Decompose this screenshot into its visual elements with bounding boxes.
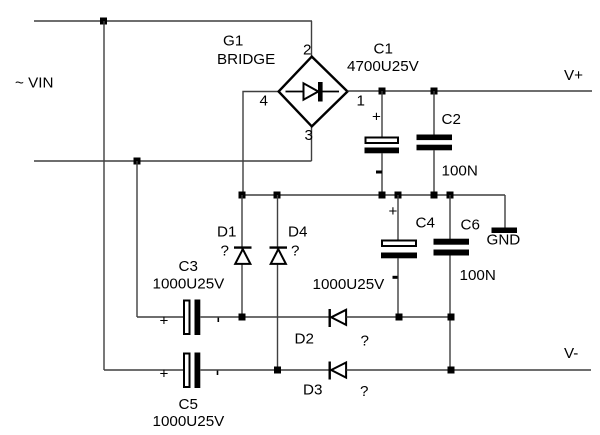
diode D2 cathode bar [329, 309, 331, 327]
svg-text:+: + [372, 109, 381, 126]
wire C3 to D2 [201, 316, 330, 318]
wire D3 to right V- rail [347, 369, 592, 371]
wire bridge pin 3 down to rail [311, 126, 313, 161]
label C5 minus tick [217, 371, 219, 376]
svg-text:V+: V+ [564, 67, 583, 84]
svg-text:D3: D3 [303, 382, 322, 399]
node V- / C6 branch [448, 367, 455, 374]
wire C5/D3 row left [104, 369, 183, 371]
capacitor C4 positive plate (hollow) [382, 241, 416, 247]
wire C6 lower lead down through both rows [449, 256, 451, 371]
capacitor C6 top plate [434, 239, 470, 245]
wire drop to bridge pin 2 [311, 21, 313, 57]
diode D2 triangle [331, 310, 346, 325]
svg-text:2: 2 [303, 42, 311, 59]
capacitor C3 negative plate (solid) [195, 300, 201, 336]
svg-text:GND: GND [487, 231, 521, 248]
wire C2 lower lead [433, 150, 435, 195]
svg-text:BRIDGE: BRIDGE [217, 51, 275, 68]
svg-text:C1: C1 [374, 41, 393, 58]
svg-text:4: 4 [260, 93, 268, 110]
svg-text:3: 3 [305, 127, 313, 144]
wire mid rail [242, 194, 505, 196]
svg-text:1000U25V: 1000U25V [153, 413, 226, 430]
svg-text:100N: 100N [442, 163, 478, 180]
bridge G1 diamond [279, 57, 348, 127]
capacitor C2 bottom plate [417, 145, 453, 151]
capacitor C4 negative plate (solid) [381, 253, 417, 259]
svg-text:?: ? [221, 243, 229, 260]
node D4 bottom [274, 367, 281, 374]
wire second AC rail [34, 160, 312, 162]
diode D3 cathode bar [329, 362, 331, 380]
bridge inner diode line [286, 91, 340, 93]
wire GND drop [504, 195, 506, 229]
node mid rail C1 bottom [379, 192, 386, 199]
wire D2 to right [347, 316, 452, 318]
node D1 bottom [239, 314, 246, 321]
wire C4 lower lead [397, 258, 399, 317]
node junction rail2 [134, 158, 141, 165]
svg-text:+: + [160, 366, 169, 383]
node C6 bottom row junction [448, 314, 455, 321]
svg-text:~ VIN: ~ VIN [15, 75, 53, 92]
node junction top rail / left vertical [100, 18, 107, 25]
wire C4 upper lead [397, 195, 399, 240]
svg-text:V-: V- [564, 345, 578, 362]
capacitor C6 bottom plate [434, 250, 470, 256]
svg-text:D2: D2 [295, 331, 314, 348]
svg-text:C6: C6 [461, 217, 480, 234]
svg-text:4700U25V: 4700U25V [347, 58, 420, 75]
node mid rail C6 top [447, 192, 454, 199]
svg-text:C5: C5 [179, 396, 198, 413]
svg-text:D1: D1 [217, 224, 236, 241]
wire C3/D2 row [137, 316, 183, 318]
svg-text:?: ? [360, 383, 368, 400]
svg-text:C4: C4 [416, 215, 435, 232]
capacitor C5 negative plate (solid) [195, 353, 201, 389]
diode D4 cathode bar [270, 246, 288, 248]
wire down to C3 row [136, 161, 138, 317]
ground bar [492, 228, 518, 234]
label C3 minus tick [217, 318, 219, 323]
diode D1 triangle [235, 249, 250, 264]
svg-text:C2: C2 [442, 111, 461, 128]
node mid rail C4 top [395, 192, 402, 199]
wire left vertical [103, 21, 105, 370]
svg-text:C3: C3 [179, 258, 198, 275]
capacitor C5 positive plate (hollow) [184, 354, 190, 388]
svg-text:1: 1 [357, 93, 365, 110]
capacitor C2 top plate [417, 135, 453, 141]
svg-text:?: ? [361, 333, 369, 350]
node C4 bottom [396, 314, 403, 321]
svg-text:G1: G1 [223, 33, 243, 50]
diode D4 triangle [271, 249, 286, 264]
wire C2 upper lead [433, 91, 435, 135]
wire V+ rail [348, 90, 593, 92]
diode D3 triangle [331, 363, 346, 378]
svg-text:1000U25V: 1000U25V [153, 276, 226, 293]
svg-text:1000U25V: 1000U25V [313, 276, 386, 293]
svg-text:+: + [160, 313, 169, 330]
wire C1 upper lead [381, 91, 383, 137]
label C1 minus [376, 171, 382, 174]
capacitor C1 negative plate (solid) [365, 148, 400, 154]
capacitor C1 positive plate (hollow) [366, 138, 399, 144]
svg-text:100N: 100N [460, 267, 496, 284]
svg-text:+: + [389, 203, 398, 220]
svg-text:D4: D4 [288, 224, 307, 241]
node mid rail C2 bottom [431, 192, 438, 199]
node mid rail D4 [274, 192, 281, 199]
wire bridge pin 4 left and down [243, 92, 279, 196]
wire D1 branch [241, 195, 243, 317]
diode D1 cathode bar [234, 246, 252, 248]
wire C6 upper lead [449, 195, 451, 239]
label C4 minus [393, 276, 398, 279]
node mid rail D1 [239, 192, 246, 199]
node C2 top [431, 88, 438, 95]
wire top AC rail [34, 20, 312, 22]
svg-text:?: ? [291, 243, 299, 260]
wire C1 lower lead [381, 153, 383, 195]
wire C5 to D3 [201, 369, 330, 371]
bridge inner diode cathode bar [318, 82, 323, 102]
wire D4 branch [277, 195, 279, 370]
capacitor C3 positive plate (hollow) [184, 301, 190, 335]
bridge inner diode triangle [304, 83, 319, 99]
node C1 top [379, 88, 386, 95]
